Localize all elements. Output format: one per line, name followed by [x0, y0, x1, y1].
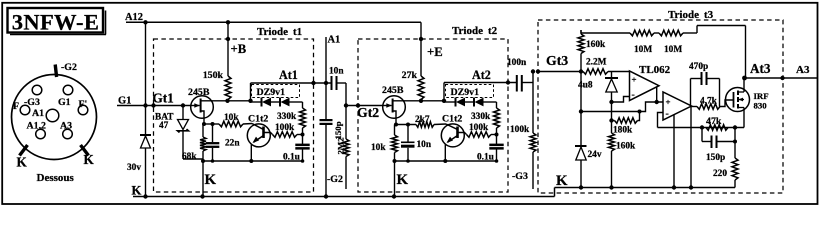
svg-text:K: K	[397, 172, 409, 188]
svg-text:330k: 330k	[277, 112, 297, 122]
svg-text:Triode: Triode	[257, 26, 288, 38]
svg-text:-G2: -G2	[61, 62, 77, 73]
svg-text:4u8: 4u8	[578, 81, 593, 91]
svg-text:68k: 68k	[182, 152, 197, 162]
svg-text:Dessous: Dessous	[37, 172, 75, 184]
svg-text:150k: 150k	[203, 70, 224, 81]
svg-text:47: 47	[159, 121, 169, 131]
svg-text:-G3: -G3	[24, 97, 40, 108]
svg-text:Gt3: Gt3	[546, 53, 568, 68]
svg-text:K: K	[205, 172, 217, 188]
svg-text:DZ9v1: DZ9v1	[451, 87, 480, 98]
svg-text:A1: A1	[328, 35, 341, 46]
svg-text:100n: 100n	[507, 58, 527, 68]
svg-text:330k: 330k	[471, 112, 491, 122]
svg-text:A1: A1	[32, 108, 44, 119]
svg-text:10k: 10k	[371, 143, 386, 153]
svg-text:2M2: 2M2	[336, 137, 346, 155]
svg-text:100k: 100k	[275, 123, 295, 133]
svg-text:3NFW-E: 3NFW-E	[12, 9, 99, 34]
svg-text:30v: 30v	[127, 163, 141, 173]
svg-text:22n: 22n	[225, 139, 240, 149]
svg-text:10k: 10k	[224, 113, 239, 123]
svg-text:A1,2: A1,2	[27, 121, 47, 132]
svg-text:-G2: -G2	[327, 174, 343, 185]
svg-text:10M: 10M	[664, 45, 682, 55]
svg-text:TL062: TL062	[639, 64, 671, 76]
svg-text:180k: 180k	[613, 126, 633, 136]
svg-text:-: -	[632, 90, 635, 101]
svg-text:K: K	[556, 173, 568, 189]
svg-text:150p: 150p	[333, 121, 343, 139]
svg-text:Gt2: Gt2	[357, 105, 379, 120]
svg-text:245B: 245B	[382, 85, 404, 96]
svg-text:IRF: IRF	[754, 91, 769, 101]
svg-text:F': F'	[79, 99, 88, 110]
svg-text:K: K	[17, 155, 28, 170]
svg-text:2.2M: 2.2M	[586, 58, 607, 68]
svg-text:150p: 150p	[706, 153, 725, 163]
svg-text:100k: 100k	[510, 125, 530, 135]
svg-text:10n: 10n	[329, 67, 344, 77]
svg-text:t3: t3	[704, 9, 714, 21]
svg-text:470p: 470p	[689, 62, 708, 72]
svg-text:t1: t1	[293, 26, 302, 38]
svg-text:A12: A12	[125, 12, 143, 23]
svg-text:245B: 245B	[188, 87, 210, 98]
svg-text:G1: G1	[58, 97, 71, 108]
svg-text:C1t2: C1t2	[442, 114, 462, 125]
svg-text:160k: 160k	[586, 40, 606, 50]
svg-text:+: +	[632, 75, 637, 85]
svg-text:-G3: -G3	[512, 171, 528, 182]
svg-text:A3: A3	[796, 64, 810, 76]
svg-text:830: 830	[754, 101, 768, 111]
svg-text:4,7k: 4,7k	[700, 97, 718, 107]
svg-text:Triode: Triode	[668, 9, 699, 21]
svg-text:At3: At3	[750, 61, 771, 76]
svg-text:K: K	[132, 184, 142, 198]
svg-text:+B: +B	[231, 42, 247, 56]
svg-text:160k: 160k	[616, 142, 636, 152]
svg-text:10n: 10n	[417, 140, 432, 150]
svg-text:27k: 27k	[402, 70, 418, 81]
svg-text:At2: At2	[472, 68, 491, 82]
svg-text:DZ9v1: DZ9v1	[257, 87, 286, 98]
svg-text:t2: t2	[488, 25, 498, 37]
svg-text:-: -	[666, 109, 669, 120]
svg-text:F: F	[13, 101, 19, 112]
svg-text:+E: +E	[427, 45, 443, 59]
svg-text:220: 220	[713, 169, 727, 179]
svg-text:A3: A3	[60, 121, 72, 132]
svg-text:24v: 24v	[588, 150, 602, 160]
svg-text:Triode: Triode	[452, 25, 483, 37]
svg-text:10M: 10M	[634, 45, 652, 55]
svg-text:K: K	[84, 152, 95, 167]
svg-text:C1t2: C1t2	[248, 114, 268, 125]
svg-text:+: +	[666, 97, 671, 107]
svg-text:47k: 47k	[706, 116, 722, 127]
svg-text:100k: 100k	[469, 123, 489, 133]
svg-text:At1: At1	[279, 68, 298, 82]
svg-text:Gt1: Gt1	[153, 91, 174, 106]
